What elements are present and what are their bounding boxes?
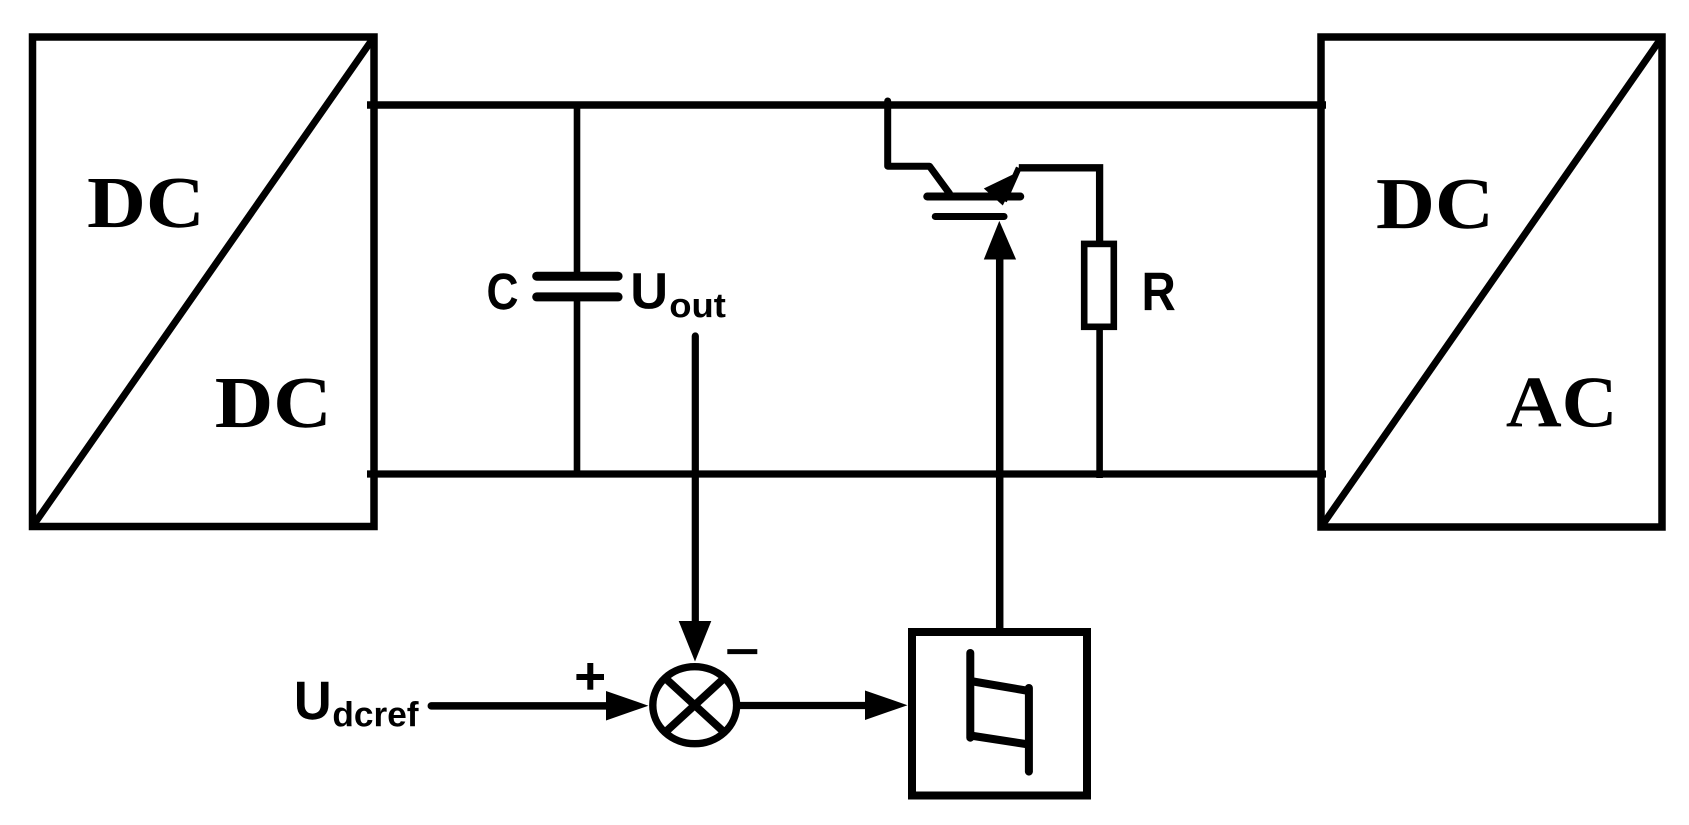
converter block U1 (DC/DC) box: [33, 37, 375, 527]
wire: summing junction output arrow shaft: [740, 702, 866, 709]
wire: resistor to bottom bus: [1096, 330, 1103, 478]
label DC (U2 input): [1377, 180, 1487, 229]
IGBT Q1 emitter lead: [1004, 168, 1019, 201]
label R: [1145, 273, 1175, 310]
wire: gate drive from comparator: [996, 258, 1004, 632]
converter U2 diagonal: [1321, 37, 1662, 527]
label DC (U1 output): [216, 378, 325, 427]
arrowhead: into hysteresis comparator: [865, 691, 908, 721]
IGBT Q1 main bar: [927, 193, 1020, 201]
arrowhead: gate drive to IGBT gate: [984, 221, 1016, 260]
summing junction X stroke 2: [665, 678, 724, 732]
wire: capacitor top lead: [574, 105, 581, 274]
arrowhead: Uout into summing junction: [679, 621, 712, 662]
capacitor C bottom plate: [537, 292, 618, 301]
summing junction circle: [653, 667, 737, 744]
label Udcref: [297, 682, 329, 720]
arrowhead: Udcref into summing junction: [606, 691, 648, 721]
hysteresis symbol left vertical: [966, 653, 974, 738]
label Udcref subscript: [334, 701, 419, 727]
hysteresis symbol upper slant: [970, 681, 1029, 691]
arrowhead: IGBT emitter arrow: [984, 171, 1020, 206]
converter block U2 (DC/AC) box: [1321, 37, 1662, 527]
wire: Uout feedback sense line: [692, 336, 699, 623]
label C: [488, 273, 517, 309]
summing junction X stroke 1: [665, 678, 724, 732]
hysteresis comparator block box: [912, 632, 1087, 796]
converter U1 diagonal: [33, 37, 375, 527]
label Uout subscript: [671, 295, 726, 318]
label AC (U2 output): [1507, 378, 1612, 427]
plus sign at summing input: [576, 674, 604, 680]
label Uout: [633, 273, 665, 309]
resistor R body: [1084, 244, 1114, 327]
wire: bottom DC bus: [367, 470, 1326, 477]
minus sign at summing input: [727, 649, 757, 654]
wire: emitter to resistor: [1019, 168, 1100, 241]
capacitor C top plate: [537, 272, 618, 281]
hysteresis symbol right vertical: [1025, 688, 1033, 772]
node: top bus junction / IGBT collector wire: [888, 101, 950, 194]
wire: Udcref input arrow shaft: [431, 702, 607, 710]
IGBT Q1 gate bar: [935, 213, 1004, 220]
hysteresis symbol lower slant: [970, 736, 1029, 745]
wire: capacitor bottom lead: [574, 299, 581, 474]
wire: top DC bus: [367, 101, 1326, 108]
label DC (U1 input): [89, 178, 199, 227]
